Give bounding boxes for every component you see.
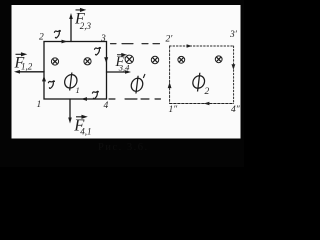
current label J (top) [54,30,60,38]
flux label Phi1 [64,73,78,91]
svg-text:2,3: 2,3 [80,21,92,31]
svg-text:4″: 4″ [231,105,241,115]
svg-text:1,2: 1,2 [21,62,33,72]
force F23 arrow (up) [70,18,72,42]
current arrow on loop1 bottom edge [81,97,87,101]
svg-text:3′: 3′ [229,30,238,40]
force F12 arrow (left) [19,71,45,73]
flux symbol x (into page) loop1 left [51,58,58,65]
flux symbol x (into page) loop1 right [84,58,91,65]
flux label Phi2 [192,73,206,92]
current arrow on loop2 left edge [168,82,172,88]
svg-text:1: 1 [37,100,42,110]
flux label Phi' [130,76,144,94]
svg-text:4,1: 4,1 [80,127,91,137]
svg-text:1″: 1″ [169,105,179,115]
wire: dashed top of intermediate contour [111,43,160,45]
svg-text:2: 2 [39,33,44,43]
flux symbol x loop2 left [178,56,185,63]
current label J (right, inside) [95,47,101,55]
loop 1 contour (1-2-3-4) [44,42,107,100]
current arrow on loop1 right edge [104,57,108,63]
svg-text:2: 2 [205,87,210,97]
svg-text:3: 3 [100,34,106,44]
wire: dashed bottom of intermediate contour [109,98,161,100]
svg-text:2′: 2′ [166,35,174,45]
flux symbol x loop2 right [215,56,222,63]
current arrow on loop1 left edge [42,76,46,82]
current label J (left, inside) [48,81,54,89]
label F34 [115,54,131,73]
svg-text:4: 4 [104,101,109,111]
flux symbol x intermediate contour right [151,56,158,63]
label F23 [74,11,92,32]
force F41 arrow (down) [69,99,71,119]
loop 2 contour (2'-3'-4''-1'') [170,46,234,104]
label F12 [14,54,33,71]
current arrow on loop2 bottom edge [204,102,210,106]
current arrow on loop2 right edge [232,64,236,70]
current arrow on loop2 top edge [187,44,192,47]
label F41 [73,115,91,136]
svg-text:1: 1 [76,85,80,95]
black scan border [0,0,244,167]
current arrow on loop1 top edge [62,40,68,44]
svg-text:Рис. 3.6.: Рис. 3.6. [98,142,149,153]
svg-text:3,4: 3,4 [118,63,130,73]
current label J (bottom, inside) [92,91,98,99]
force F34 arrow (right) [107,71,127,73]
white paper [12,5,241,139]
flux symbol x intermediate contour left [125,55,133,63]
